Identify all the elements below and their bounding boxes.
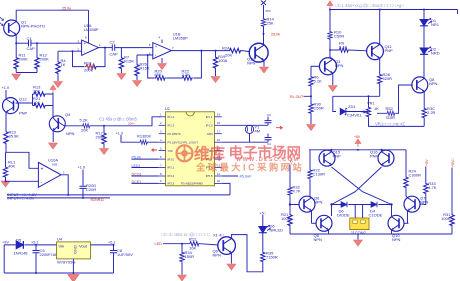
wire row9 down to INPUT+ — [222, 183, 230, 195]
svg-text:GND: GND — [73, 245, 78, 254]
U2 left pin names — [168, 115, 204, 186]
wire Q13 emitter to ground — [263, 61, 265, 67]
svg-text:IP5.5: IP5.5 — [206, 174, 213, 178]
svg-text:10K: 10K — [33, 100, 40, 105]
wire R22 to Q6 collector — [310, 180, 312, 198]
red highlight overlay on R18 — [86, 64, 95, 68]
resistor R32 4.7K — [288, 186, 292, 196]
svg-text:IP1.0: IP1.0 — [206, 124, 213, 128]
wire D6 to R35 — [262, 232, 264, 251]
svg-text:C2: C2 — [110, 40, 116, 45]
svg-text:C50R: C50R — [314, 106, 324, 111]
svg-text:C130R: C130R — [313, 172, 326, 177]
svg-text:5.2K: 5.2K — [80, 118, 89, 123]
svg-text:7150R: 7150R — [266, 255, 278, 260]
svg-text:C34V01: C34V01 — [347, 113, 362, 118]
wire R10 down — [330, 40, 338, 50]
resistor R34 150R — [181, 244, 183, 251]
svg-text:20K: 20K — [33, 88, 40, 93]
svg-text:全 球 最 大 I C 采 购 网 站: 全 球 最 大 I C 采 购 网 站 — [195, 162, 302, 173]
svg-text:20K•: 20K• — [128, 121, 134, 125]
U2 right pin stubs — [215, 117, 222, 184]
svg-text:NRLED: NRLED — [270, 228, 284, 233]
transistor Q6 NPN — [290, 196, 315, 212]
ground below R17 — [103, 145, 105, 148]
svg-text:C1ODE: C1ODE — [369, 213, 383, 218]
transistor Q9 NPN — [218, 237, 236, 255]
svg-text:4: 4 — [159, 36, 161, 40]
svg-text:520R: 520R — [383, 76, 393, 81]
crystal Y1 wires — [222, 125, 268, 142]
svg-text:4: 4 — [160, 138, 162, 142]
svg-text:100K: 100K — [441, 216, 451, 221]
svg-text:A0N: A0N — [207, 132, 213, 136]
wire R24 to Q7 collector — [406, 189, 408, 198]
wire Q6 emitter to Q5 base — [311, 211, 313, 224]
potentiometer VR1 1K — [368, 96, 370, 106]
wire LED to R12 — [163, 243, 189, 245]
diode D5 1N4148 — [16, 241, 23, 249]
op-amp U1B — [153, 43, 172, 59]
resistor R30 50R — [309, 103, 313, 115]
wire R4 to U1A minus input — [58, 50, 82, 52]
diode D3 — [341, 202, 347, 208]
svg-text:3: 3 — [160, 130, 162, 134]
svg-text:+1.9: +1.9 — [78, 166, 86, 170]
wire U1A power pin — [88, 10, 90, 43]
wire diode row — [332, 204, 392, 206]
svg-text:+5□: +5□ — [260, 211, 267, 215]
connector J1 CON2 — [350, 218, 369, 230]
ground below RL1 — [5, 178, 7, 180]
svg-text:Q4: Q4 — [65, 112, 71, 117]
svg-text:17: 17 — [217, 130, 221, 134]
cross wire B — [332, 167, 382, 205]
svg-text:LM358P: LM358P — [84, 27, 99, 32]
svg-text:8: 8 — [85, 36, 87, 40]
svg-text:R12: R12 — [189, 236, 197, 241]
svg-text:18: 18 — [217, 121, 221, 125]
svg-text:2.2R: 2.2R — [427, 110, 436, 115]
svg-text:+1.9: +1.9 — [116, 131, 124, 135]
node right — [390, 203, 392, 205]
svg-text:维库: 维库 — [194, 144, 226, 163]
svg-text:NPN: NPN — [335, 63, 344, 68]
svg-text:U4: U4 — [57, 237, 63, 242]
resistor R12 200K — [36, 43, 38, 56]
svg-text:+9V: +9V — [2, 241, 9, 245]
resistor R9 5.1K — [338, 48, 349, 52]
svg-text:25K: 25K — [267, 21, 274, 26]
op-amp U10A — [38, 162, 61, 187]
capacitor C1 — [29, 40, 31, 46]
capacitor C8 — [113, 245, 115, 250]
regulator U4 — [57, 242, 91, 259]
svg-text:NPN: NPN — [392, 237, 401, 242]
svg-text:25.0u: 25.0u — [62, 7, 71, 11]
resistor R6 5.1K on Q3 base — [310, 66, 312, 75]
wire U10A output down to INPUT+ — [61, 175, 68, 195]
svg-text:NPN: NPN — [314, 200, 323, 205]
U1B power stub + ground — [161, 40, 163, 44]
VR1 wiper arrow — [361, 111, 366, 113]
svg-text:U2: U2 — [165, 106, 171, 111]
svg-text:PNP: PNP — [333, 154, 342, 159]
wire Q7 emitter to Q10 base — [407, 211, 409, 224]
svg-text:100K: 100K — [281, 216, 291, 221]
svg-text:NPN: NPN — [314, 237, 323, 242]
resistor R36 2.2R — [422, 107, 426, 119]
resistor R4 1K — [57, 51, 59, 60]
wire Q3 emitter to ground — [332, 74, 334, 86]
svg-text:1N4148: 1N4148 — [14, 251, 29, 256]
svg-text:□C□1□45s□α□@□□□□□□: □C□1□45s□α□@□□□□□□ — [161, 232, 210, 237]
svg-text:20K: 20K — [81, 128, 88, 133]
svg-text:NR1: NR1 — [431, 22, 440, 27]
svg-text:10: 10 — [217, 179, 221, 183]
svg-text:□C1.45s•:α:g:@□.26u3□□□□□:•g□: □C1.45s•:α:g:@□.26u3□□□□□:•g□ — [335, 3, 404, 8]
resistor R26 15K — [135, 63, 139, 77]
wire R14 to Q13 collector — [263, 27, 265, 45]
resistor R24 130R right pullup — [405, 150, 407, 176]
U4 gnd pin — [72, 259, 74, 273]
transistor Q11 PNP — [367, 43, 384, 60]
LED D6 — [259, 225, 271, 232]
ground power supply — [72, 273, 74, 274]
svg-text:VR1□□□□:•g□•Z: VR1□□□□:•g□•Z — [375, 122, 405, 127]
svg-text:A05: A05 — [52, 162, 58, 166]
wires right ends to Q4 base — [47, 93, 53, 118]
top rail — [309, 150, 406, 152]
transistor Q10 NPN — [388, 215, 409, 231]
svg-text:X1 4□: X1 4□ — [213, 232, 224, 237]
wire bottoms R11 R12 — [16, 70, 37, 73]
ground below R4 — [57, 75, 59, 81]
svg-text:C50R: C50R — [334, 34, 344, 39]
wire +5V to D6 — [262, 215, 264, 226]
wire U1A output — [99, 47, 113, 49]
wire R36 down to rail — [423, 119, 425, 126]
left rail wire — [289, 165, 291, 187]
transistor Q13 NPN — [249, 43, 268, 62]
svg-text:200K: 200K — [96, 135, 106, 140]
svg-text:R2A: R2A — [222, 46, 230, 51]
wire minus input — [6, 179, 39, 182]
svg-text:35.9K: 35.9K — [9, 134, 20, 139]
svg-text:DIODE: DIODE — [337, 213, 350, 218]
wire top rail — [16, 9, 88, 11]
svg-text:7: 7 — [160, 163, 162, 167]
wire Q9 collector up and right — [231, 235, 263, 272]
feedback loop wire — [73, 48, 106, 67]
resistor R17 200K — [103, 126, 105, 132]
op-amp U1A — [82, 40, 99, 55]
svg-text:2: 2 — [160, 121, 162, 125]
wire R28 down to node row — [333, 85, 380, 96]
wire R32 to Q6 base — [290, 196, 299, 213]
transistor Q16 PNP — [378, 150, 394, 166]
svg-text:P3.4(B2S/PWM0: P3.4(B2S/PWM0 — [181, 182, 203, 186]
svg-text:NPN: NPN — [420, 200, 429, 205]
U2 body — [166, 112, 215, 186]
wire D1 to D2 — [423, 25, 425, 48]
wire +1.9 to Q12 — [5, 90, 7, 98]
resistor R20 65K — [154, 76, 166, 80]
svg-text:C1: C1 — [27, 36, 33, 41]
resistor R13 20K — [33, 92, 47, 96]
svg-text:IP3.2: IP3.2 — [168, 174, 175, 178]
svg-text:P2.0/INT0: P2.0/INT0 — [168, 132, 181, 136]
svg-text:LED: LED — [155, 242, 163, 246]
svg-text:NPN: NPN — [66, 131, 75, 136]
svg-text:310R: 310R — [386, 115, 396, 120]
svg-text:CAP: CAP — [110, 52, 119, 57]
wire R5 to MCU pin1 — [91, 117, 161, 126]
wire U1B output — [171, 50, 228, 52]
wire emitter to C1 — [16, 42, 28, 44]
U2 left pin stubs — [159, 117, 166, 184]
node left — [330, 203, 332, 205]
wire R33 to Q7 base — [424, 195, 426, 205]
svg-text:+: + — [155, 44, 158, 49]
wire row8 right label 45.0uF — [222, 175, 238, 177]
svg-text:NPN-PHOTO: NPN-PHOTO — [21, 24, 45, 29]
bottom rail — [290, 233, 452, 235]
svg-text:IP3.3: IP3.3 — [168, 182, 175, 186]
resistor R5 20K — [82, 124, 91, 128]
svg-text:Q12: Q12 — [19, 97, 27, 102]
svg-text:PNP: PNP — [370, 154, 379, 159]
ground — [12, 74, 21, 80]
diode D4 — [371, 202, 377, 208]
photo arrows — [0, 17, 4, 21]
U2 right pin numbers — [217, 113, 221, 184]
svg-text:PNP: PNP — [19, 111, 28, 116]
wire R23 down and right to U10A — [6, 145, 38, 168]
U2 right pin names — [206, 115, 213, 178]
wire R10 node down to Q3 collector — [330, 50, 333, 59]
svg-text:19: 19 — [217, 113, 221, 117]
svg-text:Vin: Vin — [59, 244, 65, 249]
svg-text:IP1.3: IP1.3 — [168, 124, 175, 128]
wire nodes to Q5 Q10 collectors — [332, 205, 392, 217]
svg-text:Y00: Y00 — [168, 149, 174, 153]
svg-text:+: + — [41, 166, 44, 172]
svg-text:+5V□: +5V□ — [451, 158, 455, 167]
red arrow pin5 — [152, 149, 158, 152]
wire Q11 emitter up to rail — [379, 10, 381, 45]
svg-text:INPUT-□□ 4.8V: INPUT-□□ 4.8V — [7, 196, 35, 201]
wire R9 to Q11 base — [349, 49, 367, 52]
resistor R10 50R — [328, 31, 332, 41]
ground below R26 — [136, 77, 138, 80]
resistor R7 15K — [120, 48, 122, 56]
transistor Q12 PNP — [3, 98, 19, 114]
cross wire A — [332, 167, 392, 205]
svg-text:D5: D5 — [16, 238, 22, 243]
capacitor C3 — [267, 123, 269, 125]
svg-text:65K: 65K — [155, 72, 162, 77]
resistor R19 15K — [215, 51, 217, 56]
svg-text:20K: 20K — [144, 133, 151, 138]
ground below R19 — [215, 70, 217, 77]
svg-text:R15K: R15K — [140, 66, 150, 71]
svg-text:5.1K: 5.1K — [339, 44, 348, 49]
svg-text:+5.1: +5.1 — [31, 241, 39, 245]
resistor R28 520R — [378, 73, 382, 85]
ground below R30 — [310, 115, 312, 125]
U1B feedback network — [148, 51, 202, 78]
svg-text:1: 1 — [63, 170, 65, 174]
ground below center — [357, 234, 359, 240]
right rail wire — [451, 168, 453, 214]
transistor Q7 NPN — [404, 196, 424, 212]
resistor R22 130R left pullup — [309, 150, 311, 169]
power arrow above — [50, 85, 56, 93]
svg-text:2.2K: 2.2K — [182, 72, 191, 77]
svg-text:1: 1 — [160, 113, 162, 117]
svg-text:25V: 25V — [266, 9, 271, 13]
wire top rail right — [330, 10, 458, 31]
top rail — [4, 244, 113, 246]
svg-text:C300R: C300R — [409, 173, 422, 178]
svg-text:NPN: NPN — [247, 61, 256, 66]
svg-text:4.7K: 4.7K — [428, 185, 437, 190]
transistor Q8 NPN — [412, 77, 428, 93]
svg-text:IP1.2: IP1.2 — [168, 115, 175, 119]
crystal Y1 — [245, 125, 253, 133]
resistor RL1 40K — [5, 152, 7, 165]
resistor R15 20K — [139, 140, 148, 144]
svg-text:1UF/50V: 1UF/50V — [117, 252, 133, 257]
svg-text:ZD1: ZD1 — [348, 104, 356, 109]
svg-text:Vout: Vout — [79, 244, 88, 249]
svg-text:VR1: VR1 — [367, 100, 376, 105]
svg-text:9: 9 — [160, 179, 162, 183]
ground below Q4 — [49, 143, 58, 149]
transistor Q15 PNP — [319, 150, 335, 166]
svg-text:NPN: NPN — [429, 81, 438, 86]
wire to Q13 base — [242, 51, 250, 52]
svg-text:W78Y05G: W78Y05G — [57, 259, 75, 264]
LED D2 — [420, 47, 432, 54]
svg-text:C3: C3 — [267, 113, 271, 117]
svg-text:4.7K: 4.7K — [293, 189, 302, 194]
LED D1 — [420, 18, 432, 25]
svg-text:+1.9: +1.9 — [2, 86, 10, 90]
svg-text:C20R: C20R — [86, 187, 96, 192]
U2 left pin numbers — [160, 113, 162, 184]
svg-text:R18: R18 — [84, 61, 92, 66]
svg-text:200K: 200K — [19, 57, 29, 62]
resistor R33 4.7K — [425, 167, 427, 183]
wire Q11 collector down to R28 — [379, 58, 381, 73]
svg-text:1K: 1K — [61, 62, 66, 67]
resistor R22 2.2K — [181, 76, 193, 80]
wire Q1 emitter down — [15, 44, 17, 52]
wire R35 to corner — [262, 263, 264, 272]
svg-text:45.0uF: 45.0uF — [240, 175, 253, 179]
svg-text:7: 7 — [172, 46, 174, 50]
bottom rail — [4, 245, 113, 273]
wire D2 to Q8 collector — [423, 54, 425, 78]
transistor Q5 NPN — [312, 215, 333, 231]
ground below R7 — [120, 70, 122, 73]
wire Q9 emitter to ground — [230, 254, 232, 264]
wire VR1 bottom — [369, 118, 425, 127]
svg-text:IP1.1: IP1.1 — [206, 115, 213, 119]
wire Q5 emitter to bottom rail — [328, 230, 330, 234]
wire R6 to R30 node — [304, 87, 312, 102]
svg-text:5.1K: 5.1K — [314, 78, 323, 83]
resistor R21 100K left — [288, 213, 292, 227]
svg-text:4M: 4M — [255, 128, 261, 133]
svg-text:+: + — [84, 41, 87, 46]
wire C1 to U1A plus input — [31, 42, 82, 44]
svg-text:6: 6 — [160, 155, 162, 159]
svg-text:+5.1: +5.1 — [108, 241, 116, 245]
resistor R14 25K — [261, 18, 265, 28]
svg-text:8: 8 — [160, 172, 162, 176]
svg-text:1K: 1K — [374, 106, 379, 111]
node dot — [36, 42, 38, 44]
svg-text:5: 5 — [149, 43, 151, 47]
resistor R31 100K right — [450, 213, 454, 227]
wire C2 to U1B — [115, 47, 153, 49]
resistor R24 base 20K — [228, 48, 242, 52]
wires J1 taps — [355, 205, 362, 219]
capacitor C4 — [267, 140, 269, 142]
svg-text:16: 16 — [217, 138, 221, 142]
svg-text:R52: R52 — [386, 106, 394, 111]
svg-text:P3.1(INT1)/YPL.L/\OUT: P3.1(INT1)/YPL.L/\OUT — [168, 140, 199, 144]
resistor R18 200K feedback — [85, 64, 98, 68]
svg-text:CAP: CAP — [27, 46, 36, 51]
svg-text:200K: 200K — [40, 57, 50, 62]
wire Q8 emitter down to R36 — [423, 92, 425, 108]
svg-text:R2NR11: R2NR11 — [91, 198, 105, 202]
resistor R12 10K — [189, 242, 200, 246]
capacitor C2 — [112, 44, 114, 50]
transistor Q3 NPN — [311, 58, 337, 75]
svg-text:20K: 20K — [225, 52, 232, 57]
svg-text:PNP: PNP — [385, 48, 394, 53]
svg-text:LM358P: LM358P — [173, 36, 188, 41]
wire INPUT+ line — [7, 194, 230, 196]
svg-text:R15K: R15K — [124, 59, 134, 64]
wire INPUT- line — [7, 197, 110, 199]
ground below R34 — [181, 263, 183, 275]
capacitor C20 — [82, 170, 84, 186]
power arrow top — [327, 1, 333, 9]
red arrow right of caps — [276, 126, 283, 129]
resistor R21 10K — [33, 103, 47, 107]
svg-text:100A: 100A — [218, 58, 228, 63]
power arrow +5V — [355, 139, 361, 147]
svg-text:NPN: NPN — [213, 253, 222, 258]
svg-text:5: 5 — [160, 146, 162, 150]
wire R12 to Q9 base — [200, 244, 219, 245]
transistor Q1 NPN-PHOTO — [4, 10, 20, 44]
resistor R52 510R — [386, 111, 396, 115]
svg-text:1: 1 — [99, 43, 101, 47]
resistor R35 150R — [261, 251, 265, 263]
wire U1B minus net — [137, 55, 153, 63]
svg-text:25.0h: 25.0h — [271, 32, 280, 36]
wire Q10 emitter to bottom rail — [391, 230, 393, 234]
svg-text:+5V: +5V — [425, 159, 429, 166]
svg-text:RL.OUT: RL.OUT — [290, 95, 304, 99]
